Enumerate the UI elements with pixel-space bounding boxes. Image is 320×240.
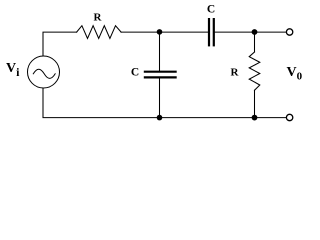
wire shunt cap bottom [159,79,161,118]
svg-text:Vi: Vi [6,61,20,79]
resistor R2 shunt [249,52,260,90]
node A junction dot [157,29,163,35]
bottom node A junction dot [157,115,163,121]
wire node A down [159,32,161,71]
output terminal bottom [286,114,292,120]
svg-text:C: C [131,67,139,79]
wire shunt resistor bottom [254,90,256,117]
svg-text:R: R [231,66,240,78]
output terminal top [286,29,292,35]
svg-text:V0: V0 [287,65,303,82]
svg-text:C: C [207,4,215,16]
wire resistor to cap [121,31,208,33]
wire cap to node B [215,31,286,33]
capacitor C2 series plates [208,19,210,45]
node B junction dot [252,29,258,35]
wire node B down [254,32,256,52]
svg-text:R: R [94,11,103,23]
wire source top [43,32,77,56]
wire bottom rail [43,88,286,118]
capacitor C1 shunt plates [145,71,176,73]
bottom node B junction dot [252,115,258,121]
resistor R1 series [77,26,122,39]
source Vi [28,56,60,88]
sine symbol [33,69,55,78]
